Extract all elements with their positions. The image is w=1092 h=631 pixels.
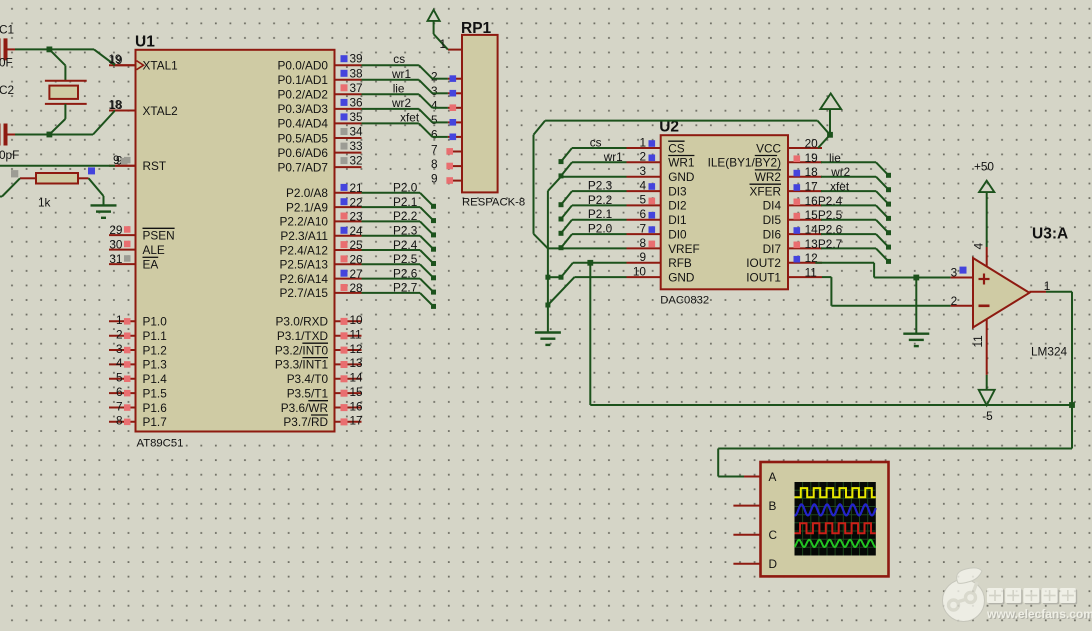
svg-text:38: 38 (350, 66, 364, 80)
svg-text:www.elecfans.com: www.elecfans.com (986, 607, 1092, 621)
svg-text:VREF: VREF (668, 242, 699, 256)
svg-text:2: 2 (116, 328, 123, 342)
svg-text:P2.3: P2.3 (588, 179, 613, 193)
svg-text:1: 1 (439, 37, 446, 51)
svg-text:P2.3: P2.3 (393, 224, 418, 238)
svg-text:DI4: DI4 (763, 199, 782, 213)
svg-text:5: 5 (431, 113, 438, 127)
svg-text:P2.0: P2.0 (588, 222, 613, 236)
svg-text:P3.7/RD: P3.7/RD (283, 415, 328, 429)
svg-text:U3:A: U3:A (1032, 226, 1068, 243)
svg-text:DI7: DI7 (763, 242, 781, 256)
svg-text:9: 9 (639, 250, 646, 264)
svg-text:8: 8 (639, 236, 646, 250)
svg-text:P0.7/AD7: P0.7/AD7 (278, 160, 329, 174)
svg-text:19: 19 (108, 52, 121, 66)
svg-text:30: 30 (109, 237, 123, 251)
svg-text:P2.5/A13: P2.5/A13 (279, 258, 328, 272)
svg-text:18: 18 (805, 165, 819, 179)
svg-text:P1.2: P1.2 (143, 343, 167, 357)
svg-text:1k: 1k (38, 195, 51, 209)
svg-text:PSEN: PSEN (143, 228, 175, 242)
svg-text:ALE: ALE (143, 243, 165, 257)
svg-text:P2.1: P2.1 (588, 207, 612, 221)
svg-text:P3.4/T0: P3.4/T0 (287, 372, 329, 386)
svg-text:14: 14 (350, 371, 364, 385)
svg-text:EA: EA (143, 257, 159, 271)
svg-text:ILE(BY1/BY2): ILE(BY1/BY2) (708, 156, 782, 170)
svg-text:P1.5: P1.5 (143, 386, 168, 400)
svg-text:1: 1 (639, 135, 646, 149)
svg-text:7: 7 (116, 399, 123, 413)
svg-text:RST: RST (143, 159, 167, 173)
svg-text:39: 39 (350, 52, 363, 66)
svg-text:IOUT1: IOUT1 (746, 270, 781, 284)
svg-text:U1: U1 (135, 34, 155, 51)
svg-text:27: 27 (350, 267, 363, 281)
svg-text:33: 33 (350, 139, 364, 153)
svg-text:P2.6: P2.6 (818, 223, 843, 237)
svg-text:P1.6: P1.6 (143, 401, 168, 415)
svg-text:7: 7 (431, 142, 438, 156)
svg-text:DAC0832: DAC0832 (660, 295, 709, 307)
svg-text:LM324: LM324 (1031, 345, 1068, 359)
svg-text:P0.1/AD1: P0.1/AD1 (278, 73, 329, 87)
svg-text:9: 9 (113, 153, 120, 167)
svg-text:P1.7: P1.7 (143, 415, 167, 429)
svg-text:28: 28 (350, 281, 364, 295)
svg-text:20: 20 (805, 136, 819, 150)
svg-text:2: 2 (639, 150, 646, 164)
svg-text:3: 3 (639, 164, 646, 178)
svg-text:wr2: wr2 (830, 165, 850, 179)
svg-text:32: 32 (350, 154, 363, 168)
svg-text:P3.2/INT0: P3.2/INT0 (275, 343, 329, 357)
svg-text:P0.3/AD3: P0.3/AD3 (278, 102, 329, 116)
svg-text:WR2: WR2 (755, 170, 781, 184)
svg-text:P2.4/A12: P2.4/A12 (279, 243, 328, 257)
svg-text:P2.6/A14: P2.6/A14 (279, 272, 328, 286)
svg-text:2: 2 (951, 294, 958, 308)
svg-text:11: 11 (805, 266, 817, 280)
svg-text:19: 19 (805, 151, 818, 165)
svg-text:cs: cs (393, 52, 405, 66)
svg-text:1: 1 (116, 313, 123, 327)
svg-text:P2.0/A8: P2.0/A8 (286, 186, 328, 200)
svg-text:6: 6 (639, 207, 646, 221)
svg-text:2: 2 (431, 70, 438, 84)
svg-text:26: 26 (350, 253, 364, 267)
svg-text:P1.4: P1.4 (143, 372, 168, 386)
svg-text:P0.4/AD4: P0.4/AD4 (278, 117, 329, 131)
svg-text:0pF: 0pF (0, 148, 19, 162)
svg-text:DI0: DI0 (668, 227, 687, 241)
svg-text:B: B (769, 499, 777, 513)
svg-text:37: 37 (350, 81, 363, 95)
svg-text:17: 17 (350, 414, 363, 428)
svg-text:P0.2/AD2: P0.2/AD2 (278, 88, 329, 102)
svg-text:C1: C1 (0, 23, 14, 37)
svg-text:wr2: wr2 (391, 96, 411, 110)
svg-text:7: 7 (639, 221, 646, 235)
svg-text:4: 4 (639, 178, 646, 192)
svg-text:5: 5 (116, 371, 123, 385)
svg-text:4: 4 (431, 99, 438, 113)
svg-text:P2.2/A10: P2.2/A10 (279, 215, 328, 229)
svg-text:15: 15 (805, 208, 819, 222)
svg-text:P2.4: P2.4 (393, 238, 418, 252)
svg-text:XTAL1: XTAL1 (143, 59, 178, 73)
svg-text:DI1: DI1 (668, 213, 686, 227)
svg-text:10: 10 (633, 264, 647, 278)
svg-text:16: 16 (805, 194, 819, 208)
svg-text:wr1: wr1 (603, 150, 623, 164)
svg-text:lie: lie (393, 81, 405, 95)
svg-text:24: 24 (350, 224, 364, 238)
svg-text:P2.5: P2.5 (818, 208, 843, 222)
svg-text:CS: CS (668, 141, 685, 155)
svg-text:P3.1/TXD: P3.1/TXD (277, 329, 328, 343)
svg-text:P2.0: P2.0 (393, 181, 418, 195)
svg-text:C2: C2 (0, 83, 14, 97)
svg-text:3: 3 (951, 265, 958, 279)
svg-text:15: 15 (350, 385, 364, 399)
svg-text:cs: cs (590, 136, 602, 150)
svg-text:6: 6 (116, 385, 123, 399)
svg-text:wr1: wr1 (391, 67, 411, 81)
svg-text:10: 10 (350, 313, 364, 327)
svg-text:P2.3/A11: P2.3/A11 (280, 229, 328, 243)
svg-text:8: 8 (431, 157, 438, 171)
svg-text:4: 4 (972, 243, 986, 250)
svg-text:RESPACK-8: RESPACK-8 (462, 197, 525, 209)
svg-text:23: 23 (350, 210, 364, 224)
svg-text:6: 6 (431, 128, 438, 142)
svg-text:RFB: RFB (668, 256, 692, 270)
svg-text:P3.5/T1: P3.5/T1 (287, 386, 328, 400)
svg-text:XFER: XFER (750, 184, 781, 198)
svg-text:VCC: VCC (756, 141, 781, 155)
svg-text:C: C (769, 528, 778, 542)
svg-text:xfet: xfet (830, 180, 850, 194)
svg-text:P2.4: P2.4 (818, 194, 843, 208)
svg-text:DI5: DI5 (763, 213, 782, 227)
svg-text:GND: GND (668, 270, 694, 284)
svg-text:DI2: DI2 (668, 199, 686, 213)
svg-text:29: 29 (109, 223, 122, 237)
svg-text:AT89C51: AT89C51 (137, 438, 184, 450)
svg-text:-5: -5 (982, 409, 993, 423)
svg-text:P2.6: P2.6 (393, 266, 418, 280)
svg-text:XTAL2: XTAL2 (143, 104, 178, 118)
svg-text:P2.5: P2.5 (393, 252, 418, 266)
svg-text:P1.0: P1.0 (143, 315, 168, 329)
svg-text:lie: lie (829, 151, 841, 165)
svg-text:P0.5/AD5: P0.5/AD5 (278, 131, 329, 145)
svg-text:DI3: DI3 (668, 184, 687, 198)
svg-text:P2.7/A15: P2.7/A15 (279, 286, 328, 300)
svg-text:11: 11 (971, 335, 985, 347)
svg-text:P2.7: P2.7 (818, 237, 842, 251)
svg-text:9: 9 (431, 171, 438, 185)
svg-text:16: 16 (350, 399, 364, 413)
svg-text:4: 4 (116, 356, 123, 370)
svg-text:3: 3 (431, 84, 438, 98)
svg-text:34: 34 (350, 125, 364, 139)
svg-text:17: 17 (805, 180, 818, 194)
svg-text:P2.2: P2.2 (393, 209, 417, 223)
svg-text:22: 22 (350, 195, 363, 209)
svg-text:P0.6/AD6: P0.6/AD6 (278, 146, 329, 160)
svg-text:P2.1: P2.1 (393, 195, 417, 209)
svg-text:21: 21 (350, 181, 363, 195)
svg-text:P0.0/AD0: P0.0/AD0 (278, 59, 329, 73)
svg-text:1: 1 (1044, 279, 1051, 293)
svg-text:WR1: WR1 (668, 156, 694, 170)
svg-text:DI6: DI6 (763, 227, 782, 241)
svg-text:14: 14 (805, 223, 819, 237)
svg-text:25: 25 (350, 238, 364, 252)
svg-text:3: 3 (116, 342, 123, 356)
svg-text:P1.3: P1.3 (143, 358, 168, 372)
svg-text:P2.1/A9: P2.1/A9 (286, 200, 328, 214)
svg-text:18: 18 (108, 97, 122, 111)
svg-text:13: 13 (805, 237, 819, 251)
svg-text:RP1: RP1 (461, 20, 492, 37)
svg-text:12: 12 (350, 342, 363, 356)
svg-text:P1.1: P1.1 (143, 329, 167, 343)
svg-text:P2.2: P2.2 (588, 193, 612, 207)
svg-text:GND: GND (668, 170, 694, 184)
svg-text:31: 31 (109, 252, 122, 266)
svg-text:P3.0/RXD: P3.0/RXD (276, 315, 328, 329)
svg-text:0F: 0F (0, 56, 13, 70)
svg-text:xfet: xfet (400, 110, 420, 124)
svg-text:IOUT2: IOUT2 (746, 256, 781, 270)
svg-text:P3.3/INT1: P3.3/INT1 (275, 358, 328, 372)
svg-text:P2.7: P2.7 (393, 281, 417, 295)
svg-text:5: 5 (639, 193, 646, 207)
svg-text:+50: +50 (974, 160, 994, 174)
svg-text:D: D (769, 557, 778, 571)
svg-text:36: 36 (350, 95, 364, 109)
svg-text:35: 35 (350, 110, 364, 124)
svg-text:8: 8 (116, 414, 123, 428)
svg-text:A: A (769, 470, 777, 484)
svg-text:13: 13 (350, 356, 364, 370)
svg-text:11: 11 (350, 328, 362, 342)
svg-text:P3.6/WR: P3.6/WR (281, 401, 328, 415)
